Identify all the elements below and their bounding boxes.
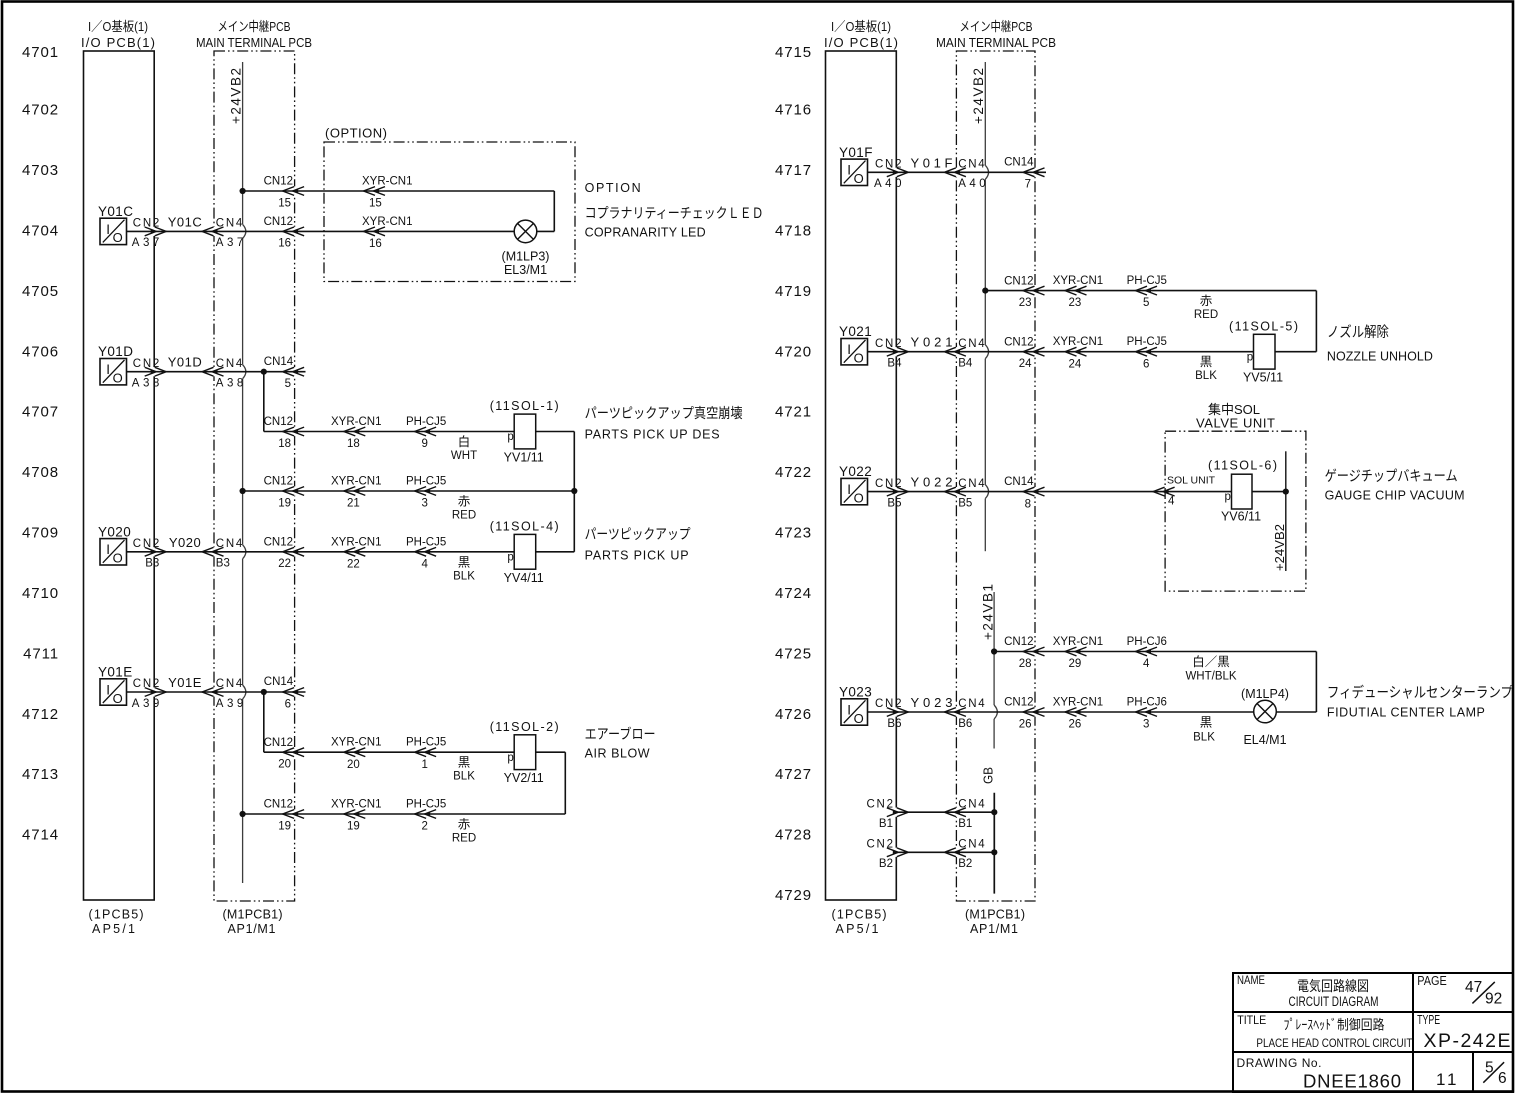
svg-text:Y021: Y021 — [839, 324, 872, 339]
svg-text:MAIN TERMINAL PCB: MAIN TERMINAL PCB — [936, 35, 1056, 50]
svg-text:4717: 4717 — [775, 162, 812, 179]
svg-text:4711: 4711 — [23, 645, 59, 662]
svg-text:4706: 4706 — [22, 343, 59, 360]
svg-text:黒: 黒 — [458, 555, 471, 569]
wire CN12-20 to solenoid YV2 — [264, 751, 514, 753]
svg-text:6: 6 — [1143, 358, 1149, 370]
junction +24VB2 to CN12-23 — [982, 288, 988, 294]
svg-text:CN12: CN12 — [1004, 275, 1033, 287]
connector PH-CJ5 pin 5 — [1127, 275, 1167, 309]
connector XYR-CN1 pin 26 — [1053, 697, 1103, 731]
svg-text:15: 15 — [278, 197, 291, 209]
svg-text:EL3/M1: EL3/M1 — [504, 263, 547, 277]
svg-text:OPTION: OPTION — [585, 181, 641, 195]
svg-text:Y01D: Y01D — [98, 344, 133, 359]
svg-text:I: I — [106, 682, 110, 697]
description air blow — [585, 726, 656, 761]
connector CN4 pin B4 — [944, 338, 985, 370]
svg-text:p: p — [1247, 351, 1253, 363]
svg-text:4727: 4727 — [775, 766, 812, 783]
svg-text:RED: RED — [452, 510, 476, 522]
svg-text:CN12: CN12 — [1004, 697, 1033, 709]
svg-text:Y01D: Y01D — [168, 355, 203, 370]
connector XYR-CN1 pin 29 — [1053, 636, 1103, 670]
svg-text:A40: A40 — [958, 178, 986, 190]
svg-text:20: 20 — [278, 759, 291, 771]
connector CN2 pin B3 — [133, 538, 166, 570]
svg-text:A39: A39 — [216, 698, 244, 710]
connector CN12 pin 15 — [264, 176, 305, 210]
svg-text:CIRCUIT DIAGRAM: CIRCUIT DIAGRAM — [1289, 994, 1379, 1009]
wire YV1 return to red bus — [536, 432, 575, 552]
connector CN12 pin 26 — [1004, 697, 1044, 731]
svg-text:4: 4 — [1168, 495, 1175, 507]
svg-text:CN12: CN12 — [264, 476, 293, 488]
svg-text:(1PCB5): (1PCB5) — [89, 908, 144, 922]
connector CN4 pin A40 — [944, 159, 985, 191]
solenoid YV6/11 (11SOL-6) gauge chip vacuum — [1208, 458, 1277, 523]
svg-text:DRAWING No.: DRAWING No. — [1237, 1056, 1322, 1070]
connector CN2 pin A40 — [874, 159, 908, 191]
svg-text:BLK: BLK — [453, 570, 475, 582]
svg-text:B2: B2 — [958, 858, 972, 870]
svg-text:XYR-CN1: XYR-CN1 — [331, 536, 381, 548]
svg-text:I／O基板(1): I／O基板(1) — [88, 19, 148, 34]
junction Y01E branch to YV2 — [261, 689, 267, 752]
wire CN12 pin15 to option lamp (upper) — [243, 191, 555, 231]
connector CN2 pin A37 — [132, 218, 166, 250]
svg-text:I/O PCB(1): I/O PCB(1) — [81, 35, 155, 50]
svg-text:AP1/M1: AP1/M1 — [970, 922, 1018, 936]
I/O PCB(1) board box (right) — [824, 19, 898, 900]
svg-text:B5: B5 — [958, 497, 972, 509]
svg-text:4704: 4704 — [22, 222, 59, 239]
connector CN2 pin B6 — [875, 698, 908, 730]
svg-text:3: 3 — [422, 498, 428, 510]
junction Y01D branch to YV1 — [261, 369, 267, 432]
wire +24VB2 to CN12-19 (red) — [243, 490, 575, 492]
grid line numbers 4715-4729 — [775, 44, 812, 904]
svg-text:YV5/11: YV5/11 — [1243, 371, 1283, 385]
wire CN2-B2 to GB bus — [896, 851, 994, 853]
svg-text:p: p — [507, 551, 513, 563]
I/O PCB(1) board box (left) — [81, 19, 155, 900]
wire +24VB1 to CN12-28 (white/black) — [994, 652, 1316, 713]
lamp M1LP4 fidutial center lamp — [1241, 687, 1289, 747]
svg-text:白: 白 — [458, 434, 471, 449]
I/O driver Y023 — [839, 685, 872, 726]
grid line numbers 4701-4714 — [22, 44, 59, 844]
svg-text:RED: RED — [452, 833, 476, 845]
svg-text:PH-CJ6: PH-CJ6 — [1127, 697, 1167, 709]
svg-text:Y01C: Y01C — [168, 214, 203, 229]
connector CN12 pin 22 — [264, 537, 305, 571]
svg-text:パーツピックアップ: パーツピックアップ — [585, 526, 691, 542]
svg-text:15: 15 — [369, 198, 382, 210]
svg-text:4725: 4725 — [775, 645, 812, 662]
svg-text:RED: RED — [1194, 309, 1218, 321]
connector XYR-CN1 pin 24 — [1053, 336, 1103, 370]
svg-text:4: 4 — [1143, 658, 1150, 670]
svg-text:BLK: BLK — [1195, 370, 1217, 382]
wire lamp to white/black return — [1276, 711, 1316, 713]
svg-text:パーツピックアップ真空崩壊: パーツピックアップ真空崩壊 — [585, 405, 743, 421]
svg-text:B6: B6 — [958, 718, 972, 730]
svg-text:(11SOL-6): (11SOL-6) — [1208, 458, 1277, 472]
svg-text:22: 22 — [278, 558, 291, 570]
wire YV2 return — [536, 752, 566, 814]
svg-text:XYR-CN1: XYR-CN1 — [362, 176, 412, 188]
svg-text:Y01C: Y01C — [98, 204, 133, 219]
svg-text:28: 28 — [1019, 658, 1032, 670]
svg-text:16: 16 — [369, 238, 382, 250]
svg-text:B3: B3 — [145, 558, 159, 570]
svg-text:1: 1 — [1436, 1070, 1445, 1089]
connector CN12 pin 23 — [1004, 275, 1044, 309]
wire CN12-18 to solenoid YV1 — [264, 431, 514, 433]
svg-text:A39: A39 — [132, 698, 160, 710]
connector XYR-CN1 pin 19 — [331, 799, 381, 833]
svg-text:6: 6 — [285, 698, 291, 710]
svg-text:22: 22 — [347, 558, 360, 570]
svg-text:XYR-CN1: XYR-CN1 — [331, 737, 381, 749]
svg-text:4712: 4712 — [22, 706, 59, 723]
svg-text:XYR-CN1: XYR-CN1 — [1053, 275, 1103, 287]
svg-text:A38: A38 — [216, 378, 244, 390]
svg-text:VALVE UNIT: VALVE UNIT — [1196, 416, 1275, 431]
wire Y01D to CN14 — [127, 371, 306, 373]
svg-text:FIDUTIAL CENTER LAMP: FIDUTIAL CENTER LAMP — [1327, 706, 1485, 720]
connector CN2 pin B4 — [875, 338, 908, 370]
title block — [1233, 973, 1513, 1092]
svg-text:AP1/M1: AP1/M1 — [228, 922, 276, 936]
svg-text:赤: 赤 — [458, 818, 471, 832]
svg-text:(11SOL-2): (11SOL-2) — [490, 720, 559, 734]
svg-text:4721: 4721 — [775, 404, 812, 421]
connector CN2 pin A39 — [132, 678, 166, 710]
connector XYR-CN1 pin 15 — [362, 176, 412, 210]
connector CN4 pin A38 — [202, 358, 243, 390]
svg-text:p: p — [1225, 491, 1231, 503]
svg-text:AIR BLOW: AIR BLOW — [585, 747, 650, 761]
svg-text:コプラナリティーチェックＬＥＤ: コプラナリティーチェックＬＥＤ — [585, 205, 764, 221]
I/O driver Y01D — [98, 344, 133, 385]
svg-text:5: 5 — [1143, 297, 1149, 309]
svg-text:4701: 4701 — [22, 44, 59, 61]
svg-text:PH-CJ6: PH-CJ6 — [1127, 636, 1167, 648]
svg-text:YV4/11: YV4/11 — [504, 571, 544, 585]
svg-text:A37: A37 — [216, 237, 244, 249]
solenoid YV2/11 (11SOL-2) air blow — [490, 720, 559, 785]
svg-text:92: 92 — [1485, 991, 1502, 1008]
connector CN4 pin B5 — [944, 478, 985, 510]
svg-text:19: 19 — [347, 821, 360, 833]
connector CN4 pin B1 — [944, 798, 985, 830]
junction +24VB2 to CN12-19 lower wire — [240, 811, 246, 817]
svg-text:CN14: CN14 — [1004, 157, 1034, 169]
svg-text:メイン中継PCB: メイン中継PCB — [218, 19, 291, 34]
svg-text:18: 18 — [347, 438, 360, 450]
svg-text:GB: GB — [981, 767, 996, 784]
svg-text:(11SOL-1): (11SOL-1) — [490, 399, 559, 413]
I/O driver Y01E — [98, 665, 133, 706]
connector CN14 pin 6 — [264, 676, 304, 710]
connector PH-CJ6 pin 4 — [1127, 636, 1167, 670]
svg-text:B1: B1 — [958, 818, 972, 830]
svg-text:21: 21 — [347, 498, 360, 510]
connector CN4 pin B3 — [202, 538, 243, 570]
wire Y021 to solenoid YV5 — [868, 351, 1254, 353]
svg-text:16: 16 — [278, 238, 291, 250]
svg-text:(11SOL-5): (11SOL-5) — [1229, 319, 1298, 333]
connector CN4 pin B2 — [944, 839, 985, 871]
svg-text:A38: A38 — [132, 378, 160, 390]
svg-text:4720: 4720 — [775, 343, 812, 360]
svg-text:4707: 4707 — [22, 404, 59, 421]
svg-text:Y023: Y023 — [839, 685, 872, 700]
connector CN4 pin A37 — [202, 218, 243, 250]
svg-text:赤: 赤 — [458, 495, 471, 509]
main terminal PCB box (right) — [936, 19, 1056, 901]
svg-text:YV1/11: YV1/11 — [504, 451, 544, 465]
svg-text:I: I — [847, 702, 851, 717]
connector CN14 pin 7 — [1004, 157, 1044, 191]
svg-text:CN14: CN14 — [1004, 476, 1034, 488]
connector CN4 pin B6 — [944, 698, 985, 730]
svg-text:47: 47 — [1465, 979, 1482, 996]
wire YV4 return to red junction — [536, 551, 575, 553]
svg-text:PH-CJ5: PH-CJ5 — [406, 799, 446, 811]
svg-text:I: I — [106, 222, 110, 237]
svg-text:PH-CJ5: PH-CJ5 — [406, 536, 446, 548]
connector PH-CJ5 pin 1 — [406, 737, 446, 771]
svg-text:Y01E: Y01E — [168, 675, 202, 690]
connector CN12 pin 19 lower — [264, 799, 305, 833]
svg-text:26: 26 — [1069, 719, 1082, 731]
svg-text:I/O PCB(1): I/O PCB(1) — [824, 35, 898, 50]
svg-text:A37: A37 — [132, 237, 160, 249]
wire Y01C to lamp — [127, 230, 515, 232]
junction +24VB1 to CN12-28 — [991, 648, 997, 654]
svg-text:Y020: Y020 — [169, 535, 201, 550]
svg-text:NOZZLE UNHOLD: NOZZLE UNHOLD — [1327, 350, 1433, 364]
svg-text:O: O — [854, 171, 864, 186]
svg-text:PLACE HEAD CONTROL CIRCUIT: PLACE HEAD CONTROL CIRCUIT — [1256, 1036, 1413, 1050]
svg-text:4723: 4723 — [775, 525, 812, 542]
svg-text:PH-CJ5: PH-CJ5 — [1127, 336, 1167, 348]
svg-text:XYR-CN1: XYR-CN1 — [362, 216, 412, 228]
I/O driver Y021 — [839, 324, 872, 365]
connector CN12 pin 20 — [264, 737, 305, 771]
svg-text:電気回路線図: 電気回路線図 — [1297, 978, 1369, 994]
svg-text:(OPTION): (OPTION) — [325, 126, 387, 141]
svg-text:PH-CJ5: PH-CJ5 — [406, 737, 446, 749]
svg-text:O: O — [854, 490, 864, 505]
svg-text:ゲージチップバキューム: ゲージチップバキューム — [1325, 468, 1458, 485]
svg-text:XYR-CN1: XYR-CN1 — [1053, 697, 1103, 709]
power bus +24VB2 (right) — [971, 62, 988, 551]
wire YV6 to +24VB2 stub — [1252, 491, 1286, 493]
power bus +24VB1 (right) — [980, 584, 997, 749]
svg-text:CN12: CN12 — [264, 416, 293, 428]
svg-text:黒: 黒 — [458, 756, 471, 770]
connector XYR-CN1 pin 22 — [331, 536, 381, 570]
svg-text:26: 26 — [1019, 718, 1032, 730]
svg-text:(M1PCB1): (M1PCB1) — [965, 908, 1025, 922]
description fidutial center lamp — [1327, 684, 1513, 720]
svg-text:COPRANARITY LED: COPRANARITY LED — [585, 226, 706, 240]
power bus +24VB2 (left) — [229, 62, 246, 883]
connector PH-CJ5 pin 4 — [406, 536, 446, 570]
wire YV5 return to red wire — [1275, 351, 1316, 353]
svg-text:O: O — [854, 711, 864, 726]
svg-text:BLK: BLK — [1193, 732, 1215, 744]
connector PH-CJ5 pin 6 — [1127, 336, 1167, 370]
svg-text:4713: 4713 — [22, 766, 59, 783]
lamp M1LP3 coplanarity LED — [537, 230, 555, 232]
svg-text:4715: 4715 — [775, 44, 812, 61]
description coplanarity check LED — [585, 181, 764, 240]
solenoid YV1/11 (11SOL-1) parts pick up destroy — [490, 399, 559, 464]
svg-text:29: 29 — [1069, 658, 1082, 670]
svg-text:O: O — [113, 230, 123, 245]
svg-text:CN12: CN12 — [264, 216, 293, 228]
wire Y022 to solenoid YV6 — [868, 491, 1232, 493]
wire Y01E to CN14 — [127, 691, 306, 693]
connector CN2 pin B5 — [875, 478, 908, 510]
junction GB to B2 wire — [991, 849, 997, 855]
svg-text:(M1PCB1): (M1PCB1) — [223, 908, 283, 922]
svg-text:19: 19 — [278, 497, 291, 509]
svg-text:I: I — [106, 362, 110, 377]
svg-text:AP5/1: AP5/1 — [92, 922, 135, 936]
connector XYR-CN1 pin 20 — [331, 737, 381, 771]
wire Y023 to lamp EL4 — [868, 711, 1254, 713]
I/O driver Y01F — [839, 145, 873, 186]
svg-text:O: O — [113, 551, 123, 566]
junction +24VB2 to CN12-19 wire — [240, 488, 246, 494]
connector CN12 pin 28 — [1004, 636, 1044, 670]
svg-text:4724: 4724 — [775, 585, 812, 602]
svg-text:WHT/BLK: WHT/BLK — [1185, 671, 1236, 683]
wire Y01F to CN14 — [868, 171, 1047, 173]
svg-text:4716: 4716 — [775, 102, 812, 119]
svg-text:DNEE1860: DNEE1860 — [1303, 1071, 1401, 1092]
svg-text:2: 2 — [422, 821, 428, 833]
svg-text:黒: 黒 — [1200, 716, 1213, 730]
connector SOL UNIT pin 4 — [1153, 475, 1216, 508]
svg-text:24: 24 — [1069, 358, 1082, 370]
svg-text:I: I — [847, 163, 851, 178]
svg-text:PARTS PICK UP DES: PARTS PICK UP DES — [585, 428, 720, 442]
svg-text:4: 4 — [422, 558, 429, 570]
svg-text:Y01E: Y01E — [98, 665, 133, 680]
(M1PCB1) AP1/M1 board designator (right) — [965, 908, 1025, 937]
valve unit enclosure box — [1165, 402, 1306, 591]
connector XYR-CN1 pin 16 — [362, 216, 412, 250]
svg-text:4710: 4710 — [22, 585, 59, 602]
svg-text:B4: B4 — [958, 358, 973, 370]
svg-text:+24VB2: +24VB2 — [1272, 524, 1287, 571]
svg-text:(M1LP4): (M1LP4) — [1241, 687, 1289, 701]
svg-text:4705: 4705 — [22, 283, 59, 300]
svg-text:Y020: Y020 — [98, 524, 131, 539]
svg-text:I: I — [847, 342, 851, 357]
svg-text:PH-CJ5: PH-CJ5 — [406, 476, 446, 488]
svg-text:黒: 黒 — [1200, 355, 1213, 369]
svg-text:6: 6 — [1498, 1070, 1507, 1087]
svg-text:PH-CJ5: PH-CJ5 — [1127, 275, 1167, 287]
svg-text:O: O — [854, 351, 864, 366]
svg-text:PH-CJ5: PH-CJ5 — [406, 416, 446, 428]
svg-text:EL4/M1: EL4/M1 — [1243, 733, 1286, 747]
svg-text:8: 8 — [1025, 498, 1031, 510]
svg-text:TYPE: TYPE — [1417, 1012, 1440, 1027]
svg-text:エアーブロー: エアーブロー — [585, 726, 656, 742]
svg-text:CN14: CN14 — [264, 356, 294, 368]
svg-text:B1: B1 — [879, 818, 893, 830]
connector CN12 pin 19 — [264, 476, 305, 510]
svg-text:赤: 赤 — [1200, 294, 1213, 308]
connector XYR-CN1 pin 21 — [331, 476, 381, 510]
svg-text:SOL UNIT: SOL UNIT — [1167, 475, 1216, 487]
I/O driver Y020 — [98, 524, 131, 565]
connector PH-CJ5 pin 9 — [406, 416, 446, 450]
svg-text:TITLE: TITLE — [1237, 1015, 1266, 1027]
svg-text:AP5/1: AP5/1 — [836, 922, 879, 936]
svg-text:XYR-CN1: XYR-CN1 — [331, 799, 381, 811]
connector CN2 pin B1 — [867, 798, 909, 830]
svg-text:XYR-CN1: XYR-CN1 — [1053, 336, 1103, 348]
connector CN12 pin 16 — [264, 216, 305, 250]
svg-text:7: 7 — [1025, 179, 1031, 191]
svg-text:(11SOL-4): (11SOL-4) — [490, 520, 559, 534]
svg-text:4719: 4719 — [775, 283, 812, 300]
svg-text:B4: B4 — [887, 358, 902, 370]
svg-text:O: O — [113, 691, 123, 706]
svg-text:4722: 4722 — [775, 464, 812, 481]
I/O driver Y01C — [98, 204, 133, 245]
connector PH-CJ5 pin 3 — [406, 476, 446, 510]
svg-text:CN12: CN12 — [264, 537, 293, 549]
svg-text:YV6/11: YV6/11 — [1221, 510, 1261, 524]
svg-text:23: 23 — [1019, 297, 1032, 309]
junction solenoid returns at red wire — [571, 488, 577, 494]
svg-text:Y01F: Y01F — [839, 145, 873, 160]
wire +24VB2 to CN12-19 lower (red) — [243, 813, 566, 815]
svg-text:4708: 4708 — [22, 464, 59, 481]
svg-text:I: I — [106, 542, 110, 557]
svg-text:CN12: CN12 — [1004, 336, 1033, 348]
svg-text:p: p — [507, 431, 513, 443]
solenoid YV5/11 (11SOL-5) nozzle unhold — [1229, 319, 1298, 384]
svg-text:I／O基板(1): I／O基板(1) — [831, 19, 891, 34]
svg-text:I: I — [847, 482, 851, 497]
svg-text:1: 1 — [1447, 1070, 1456, 1089]
svg-text:23: 23 — [1069, 297, 1082, 309]
svg-text:19: 19 — [278, 820, 291, 832]
svg-text:4709: 4709 — [22, 525, 59, 542]
svg-text:PAGE: PAGE — [1417, 973, 1447, 988]
description parts pick up des — [585, 405, 743, 442]
junction YV6 to +24VB2 stub — [1283, 489, 1289, 495]
svg-text:NAME: NAME — [1237, 975, 1265, 987]
svg-text:4702: 4702 — [22, 102, 59, 119]
svg-text:CN12: CN12 — [264, 176, 293, 188]
svg-text:メイン中継PCB: メイン中継PCB — [960, 19, 1033, 34]
connector CN14 pin 8 — [1004, 476, 1044, 511]
svg-text:4726: 4726 — [775, 706, 812, 723]
